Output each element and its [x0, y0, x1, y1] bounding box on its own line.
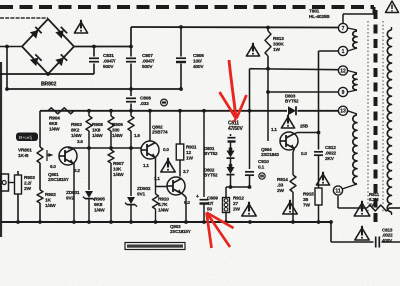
node bottom rail x250 — [248, 220, 252, 224]
capacitor C807 — [126, 47, 136, 90]
node bottom rail x204 — [202, 220, 206, 224]
annotation 0.0 Q904 — [301, 151, 307, 156]
node C807 bottom — [129, 87, 133, 91]
label C812 — [325, 145, 337, 162]
core dotted line b — [382, 21, 384, 212]
node bottom rail x186 — [184, 220, 188, 224]
capacitor C811 — [228, 134, 236, 150]
wire top rail y27 — [131, 26, 339, 29]
annotation 0.0 Q902 — [163, 147, 169, 152]
resistor R903 2.2 box — [15, 171, 22, 222]
capacitor C812 — [314, 152, 323, 188]
wire pin1 drop — [318, 51, 320, 150]
svg-text:3.2: 3.2 — [74, 168, 80, 173]
warning triangle top-right — [386, 1, 399, 13]
annotation 1.1 a — [143, 163, 149, 168]
wire C813 riser — [329, 220, 333, 242]
capacitor C809 electrolytic — [196, 194, 209, 222]
warning triangle R914 — [283, 200, 297, 214]
wire pin9 feed — [268, 91, 339, 93]
core dotted line a — [367, 21, 369, 212]
label R911 — [186, 145, 197, 162]
resistor R811 — [367, 205, 400, 211]
wire y69 to pin12 — [250, 69, 339, 70]
svg-text:0.0: 0.0 — [301, 151, 307, 156]
wire Q904 emitter — [293, 149, 295, 176]
label C807 — [142, 53, 155, 70]
capacitor C910 — [245, 172, 254, 189]
diode D801 — [227, 147, 235, 166]
warning triangle top-mid — [246, 43, 259, 56]
wire ground rail y89 — [7, 88, 181, 90]
potentiometer VR801 — [37, 147, 53, 163]
label D803 — [285, 94, 299, 104]
label box B+ adj — [16, 133, 38, 142]
warning triangle mid — [161, 158, 175, 172]
capacitor C831 — [89, 47, 99, 75]
svg-text:BR802: BR802 — [41, 82, 56, 88]
label T801 — [309, 9, 330, 20]
wire y74 lower AC rail — [0, 73, 94, 75]
warning triangle R915 — [316, 172, 329, 185]
resistor R902 1K — [37, 190, 43, 203]
redacted label box — [125, 243, 185, 250]
transformer pin 12 — [338, 66, 347, 75]
svg-text:9.0: 9.0 — [50, 164, 56, 169]
diode D803 — [288, 106, 296, 115]
zener ZD902 — [125, 197, 137, 222]
warning triangle Q904 — [281, 115, 294, 128]
resistor R915 box — [315, 188, 322, 222]
capacitor C806 electrolytic — [176, 25, 186, 91]
annotation 1.1 b — [154, 176, 160, 181]
transformer pin 1 — [338, 46, 347, 55]
resistor R908 1K8 — [108, 111, 114, 148]
svg-text:12: 12 — [340, 68, 346, 74]
annotation 9.0 Q901 — [50, 164, 56, 169]
label C831 — [103, 53, 116, 70]
label D801 — [204, 146, 218, 156]
svg-text:25B: 25B — [300, 124, 309, 129]
node x7 on AC wire — [5, 45, 9, 91]
label R902 1K — [45, 192, 56, 209]
label R905 — [94, 197, 105, 214]
svg-text:3.7: 3.7 — [183, 169, 189, 174]
wire link y187 — [226, 185, 250, 189]
wire Q903 base link — [156, 186, 168, 188]
annotation 3.6 — [77, 139, 83, 144]
resistor R911 box — [176, 109, 184, 177]
svg-text:9.0: 9.0 — [184, 200, 190, 205]
label D802 — [204, 168, 218, 178]
node bottom rail x74 — [72, 220, 76, 224]
node bottom rail x155.5 — [154, 220, 158, 224]
resistor R913 — [265, 26, 271, 69]
label Q901 — [48, 172, 69, 182]
wire AC input left — [0, 46, 23, 48]
svg-text:+: + — [196, 194, 199, 200]
left page edge line — [0, 62, 2, 237]
red arrow lower (points to C809) — [207, 213, 234, 249]
capacitor C813 — [376, 237, 380, 248]
label C813 — [382, 228, 393, 243]
wire pin1 feed — [319, 50, 339, 52]
annotation 1.1 Q904 — [271, 127, 277, 132]
wire bottom rail y222 — [1, 221, 331, 223]
warning triangle R811 — [354, 201, 370, 216]
annotation 3.7 — [183, 169, 189, 174]
wire x40 bottom — [39, 203, 41, 222]
label C811 — [228, 121, 244, 133]
label R910 — [158, 197, 169, 214]
wire main rail y111 — [40, 110, 339, 112]
wire left drop x7 — [6, 47, 8, 90]
label C809 — [207, 196, 218, 213]
bridge rectifier BR802 diamond — [22, 19, 74, 74]
label R908 — [92, 122, 103, 139]
wire Q901 emitter — [73, 163, 75, 222]
resistor R910 — [153, 187, 159, 223]
wire mid rail y148 — [68, 146, 141, 150]
svg-text:C813.0022400V: C813.0022400V — [382, 228, 393, 243]
dashed enclosure border right — [374, 7, 376, 222]
bridge diode top-right — [55, 27, 67, 39]
label R903 8K2 — [71, 122, 82, 139]
label Q903 — [170, 224, 191, 234]
wire AC input top — [0, 17, 48, 19]
wire x268 column — [266, 67, 270, 141]
resistor R914 — [290, 175, 296, 222]
wire x40 mid — [39, 163, 41, 190]
svg-text:9: 9 — [342, 90, 345, 96]
annotation 25B — [300, 124, 309, 129]
node rail x131 — [129, 109, 133, 113]
label Q904 — [261, 147, 279, 157]
zener ZD901 — [83, 148, 95, 222]
svg-text:0.0: 0.0 — [163, 147, 169, 152]
primary winding 12-9 — [348, 71, 357, 93]
transistor Q903 — [167, 177, 185, 195]
transistor Q904 — [280, 132, 298, 150]
node bottom rail x318.5 — [317, 220, 321, 224]
red arrow upper (points to C811) — [220, 60, 247, 122]
resistor R907 — [108, 148, 114, 222]
wire bridge right to C807 — [74, 46, 131, 48]
transistor Q902 — [141, 141, 159, 159]
node rail x89 — [87, 109, 91, 113]
svg-text:1.1: 1.1 — [143, 163, 149, 168]
svg-text:B+adj: B+adj — [19, 135, 32, 141]
node bottom rail x111 — [109, 220, 113, 224]
symbol circled-H C808 — [161, 99, 168, 106]
wire x131 lower — [130, 148, 132, 196]
node bottom rail x89 — [87, 220, 91, 224]
label VR801 — [18, 148, 32, 159]
warning triangle C813 — [355, 226, 369, 240]
wire Q904 collector — [295, 131, 321, 135]
label R907 — [113, 161, 124, 178]
label C806 — [193, 53, 204, 70]
wire Q902 collector — [148, 109, 152, 141]
annotation 9.0 Q903 — [184, 200, 190, 205]
label R906 — [112, 122, 123, 139]
transistor Q901 — [59, 147, 77, 165]
svg-text:13: 13 — [340, 109, 346, 115]
secondary winding — [387, 27, 391, 215]
svg-text:1.1: 1.1 — [154, 176, 160, 181]
bridge diode bottom-right — [55, 54, 67, 66]
resistor R912 fusible box — [223, 187, 230, 222]
label R903 2.2 — [24, 175, 35, 192]
bridge diode bottom-left — [30, 54, 42, 66]
node bridge bottom — [46, 72, 50, 76]
label R914 — [277, 177, 288, 194]
wire C807 top riser — [129, 27, 133, 48]
node bottom rail x131 — [129, 220, 133, 224]
annotation 3.2 — [74, 168, 80, 173]
transformer pin 7 — [338, 23, 347, 32]
transformer pin 9 — [338, 87, 347, 96]
resistor R904 horizontal — [48, 108, 74, 114]
dashed enclosure border top — [0, 5, 374, 9]
label R913 — [273, 36, 284, 53]
wire Q902 emitter — [155, 158, 157, 187]
label R811 — [369, 192, 380, 207]
svg-text:1: 1 — [342, 49, 345, 55]
wire Q903 emitter — [182, 194, 186, 223]
wire x204 drop — [202, 109, 206, 197]
annotation 1.6 — [134, 133, 140, 138]
resistor R906 330 — [128, 111, 134, 148]
primary winding 13-11 — [342, 111, 357, 189]
label Q902 — [152, 125, 168, 135]
bridge diode top-left — [30, 27, 42, 39]
node bottom rail x40 — [38, 220, 42, 224]
node bottom rail x293 — [291, 220, 295, 224]
wire pin11 drop — [338, 196, 367, 208]
label R915 — [303, 192, 314, 209]
wire x249 upper — [248, 69, 252, 169]
wire x40 drop — [39, 111, 41, 147]
transformer pin 13 — [338, 106, 347, 115]
node rail x111 — [109, 109, 113, 113]
node bottom rail x226 — [224, 220, 228, 224]
label R912 — [233, 196, 244, 213]
symbol circled-H C910 — [259, 173, 265, 179]
label R904 — [49, 116, 60, 133]
wire y242 out — [331, 241, 400, 243]
wire pin7 top stub — [343, 14, 374, 23]
capacitor C808 — [126, 89, 136, 111]
label BR802 — [41, 82, 56, 88]
connector left edge — [1, 174, 16, 191]
diode D802 — [227, 164, 235, 187]
label C808 — [140, 96, 151, 107]
svg-text:7: 7 — [342, 26, 345, 32]
warning triangle R912 — [242, 202, 256, 216]
label C910 — [258, 159, 269, 170]
svg-text:11: 11 — [335, 188, 341, 194]
transformer pin 11 — [333, 186, 342, 195]
warning triangle top-left — [74, 20, 87, 33]
resistor R903 8K2 — [86, 111, 92, 148]
svg-text:1.6: 1.6 — [134, 133, 140, 138]
svg-text:3.6: 3.6 — [77, 139, 83, 144]
label ZD902 — [137, 186, 151, 197]
primary winding 7-1 — [348, 28, 357, 51]
svg-text:1.1: 1.1 — [271, 127, 277, 132]
node bridge right rail — [92, 45, 96, 49]
node bottom rail x18 — [16, 220, 20, 224]
label ZD901 — [66, 190, 80, 201]
